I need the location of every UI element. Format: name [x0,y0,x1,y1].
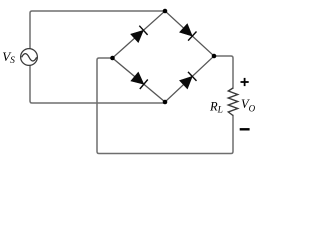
node bottom [163,100,168,105]
node top [163,9,168,14]
diode D4 (bottom node to right node) [180,72,197,89]
diode D1 (left node to top node) [131,26,148,43]
AC source VS [21,49,38,66]
plus sign [241,78,249,86]
diode D2 (top node to right node) [180,24,197,41]
wire bridge side left-bottom [113,58,166,102]
node left [110,56,115,61]
wire from source top up and right to top node [30,11,165,49]
node right [212,54,217,59]
minus sign [240,128,250,130]
resistor RL zigzag [228,88,237,116]
wire from right node to resistor top [214,56,233,88]
wire from source bottom down and right to bottom node [30,65,165,103]
wire bridge side left-top [113,11,166,58]
diode D3 (left node to bottom node) [131,72,148,89]
wire from left node down around bottom to resistor bottom [97,58,233,154]
wire bridge side top-right [165,11,214,56]
wire bridge side bottom-right [165,56,214,102]
